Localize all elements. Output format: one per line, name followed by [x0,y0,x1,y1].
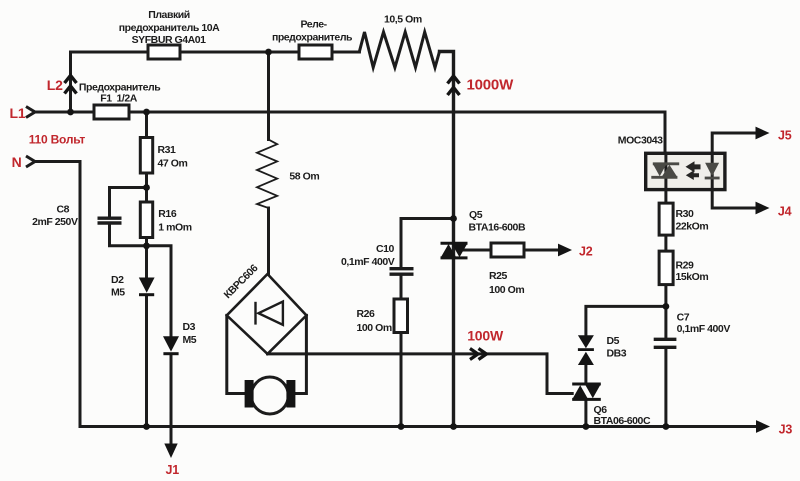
label C10 value [341,256,395,268]
svg-text:J2: J2 [579,245,593,259]
optocoupler light arrows [686,161,701,180]
svg-text:D2: D2 [111,274,124,286]
svg-text:10,5 Om: 10,5 Om [384,14,422,26]
junction dot L2/L1 [67,109,74,116]
wire optocoupler right pin J5/J4 [712,133,756,208]
label fuse10A line2 [119,22,220,34]
wire 58 Om branch upper [267,52,270,140]
wire L2 branch up to top fuse [71,52,149,112]
label bridge KBPC606 [222,262,261,301]
svg-text:L1: L1 [10,105,26,121]
svg-text:J1: J1 [166,463,180,477]
label D5 type DB3 [607,348,627,360]
label C7 value [677,323,731,335]
wire C8 loop [110,188,147,246]
svg-text:Q5: Q5 [469,209,483,221]
bridge rectifier KBPC606 diamond [227,274,307,354]
label resistor value 58 Om [289,171,319,183]
wire 58 Om to bridge top [267,208,270,274]
fuse "Реле-предохранитель" [299,45,332,59]
label D2 value M5 [111,287,125,299]
label terminal J5 [778,129,792,143]
svg-text:100 Om: 100 Om [357,322,392,334]
junction dot top wire / 58 Om [265,49,272,56]
label C10 [376,243,395,255]
label D5 [607,335,620,347]
svg-text:C7: C7 [677,312,690,324]
junction dot gate node R29/C7/D5 [663,303,670,310]
svg-text:DB3: DB3 [607,348,627,360]
junction dot rail/C7 [663,423,670,430]
label relay fuse line2 [272,32,353,44]
arrowhead J5 right [756,127,770,140]
label fuse10A value SYFBUR G4A01 [132,34,207,46]
svg-text:D5: D5 [607,335,620,347]
label R29 [676,260,695,272]
label D3 [183,321,196,333]
svg-text:MOC3043: MOC3043 [618,135,663,147]
fuse "Плавкий предохранитель 10А" [148,45,180,59]
svg-text:58 Om: 58 Om [289,171,319,183]
svg-text:Плавкий: Плавкий [148,9,190,21]
svg-text:C10: C10 [376,243,395,255]
junction dot rail/Q6 [583,423,590,430]
wire bridge right corner to motor [294,315,306,393]
arrow L2 up double chevron [65,76,77,94]
label D3 value M5 [183,334,197,346]
svg-text:M5: M5 [111,287,125,299]
wire optocoupler left pin chain [664,153,667,426]
label R25 value [489,284,524,296]
arrowhead J1 down [164,444,177,459]
label R25 [489,270,508,282]
wire L1 main rail [35,112,665,153]
svg-text:R16: R16 [158,208,177,220]
optocoupler right pin through body [711,155,714,188]
svg-text:2mF 250V: 2mF 250V [32,216,78,228]
svg-text:J4: J4 [778,205,792,219]
capacitor C10 [390,269,414,275]
label net 100W [467,328,504,344]
label resistor value 10,5 Om [384,14,422,26]
diode D2 [139,278,155,297]
resistor R16 [140,202,152,238]
wire Q5 gate to R25 and J2 [464,249,559,252]
fuse F1 [94,105,129,119]
svg-text:100 Om: 100 Om [489,284,524,296]
label net L1 [10,105,26,121]
optocoupler internal LED [705,163,720,180]
label Q6 [594,404,608,416]
svg-text:предохранитель: предохранитель [272,32,353,44]
optocoupler internal triac [651,164,679,178]
resistor 10,5 Om zigzag [359,32,439,68]
svg-text:L2: L2 [47,77,63,93]
label R29 value [676,271,709,283]
svg-text:D3: D3 [183,321,196,333]
wire bridge left corner to motor [227,315,246,393]
wire C10 branch [401,219,454,427]
svg-text:0,1mF 400V: 0,1mF 400V [341,256,395,268]
label R26 [357,308,376,320]
svg-text:110 Вольт: 110 Вольт [29,133,86,147]
svg-text:1 mOm: 1 mOm [158,222,191,234]
label R31 value [158,158,188,170]
svg-text:J3: J3 [779,423,793,437]
label R26 value [357,322,392,334]
svg-text:100W: 100W [467,328,504,344]
arrowhead J4 right [756,202,770,215]
motor brush left [245,380,254,408]
motor brush right [286,380,295,408]
label terminal J2 [579,245,593,259]
resistor R30 [659,203,673,235]
label terminal J1 [166,463,180,477]
resistor R31 [140,138,152,174]
optocoupler left pin through body [664,155,667,188]
triac Q5 [441,243,468,258]
arrow 100W right double chevron [470,349,487,360]
label C8 [56,204,69,216]
svg-text:N: N [12,154,22,170]
wire bottom rail to J3 [80,425,757,428]
wire relay fuse to resistor 10,5 Om [332,51,359,54]
svg-text:15kOm: 15kOm [676,271,709,283]
label fuse F1 line1 [79,82,161,94]
wire D3 / J1 branch [147,246,172,445]
svg-text:J5: J5 [778,129,792,143]
junction dot F1/R31 [143,109,150,116]
wire top fuse to relay fuse [180,51,299,54]
resistor R25 [491,243,524,257]
svg-text:R29: R29 [676,260,695,272]
label 110 Вольт [29,133,86,147]
junction dot rail/R26 [398,423,405,430]
svg-text:C8: C8 [56,204,69,216]
terminal chevron L1 [26,107,35,118]
wire 100W line from bridge to Q6 gate [268,354,573,394]
svg-text:47 Om: 47 Om [158,158,188,170]
junction dot rail/Q5 line [450,423,457,430]
junction dot R16/C8 bottom/D2 [143,242,150,249]
label MOC3043 [618,135,663,147]
resistor 58 Om zigzag [257,140,277,209]
capacitor C8 [98,218,122,223]
label R30 [676,208,695,220]
label Q5 [469,209,483,221]
svg-text:Реле-: Реле- [300,19,327,31]
resistor R26 [394,299,408,333]
label net 1000W [467,77,515,94]
svg-text:предохранитель 10А: предохранитель 10А [119,22,220,34]
label R16 value [158,222,191,234]
capacitor C7 [654,339,677,347]
label net N [12,154,22,170]
junction dot rail/D2 [143,423,150,430]
wire N entry and left drop [35,162,80,427]
svg-text:BTA06-600C: BTA06-600C [594,415,651,427]
triac Q6 [572,384,601,399]
label R31 [158,144,177,156]
svg-text:SYFBUR G4A01: SYFBUR G4A01 [132,34,207,46]
motor M armature circle [251,377,288,414]
label C7 [677,312,690,324]
label R30 value [676,221,709,233]
wire gate node to D5 and Q6 [586,306,666,426]
svg-text:BTA16-600B: BTA16-600B [469,222,526,234]
svg-text:22kOm: 22kOm [676,221,709,233]
label Q5 type BTA16-600B [469,222,526,234]
label net L2 [47,77,63,93]
arrowhead J3 right [756,420,770,433]
svg-text:F1 1/2A: F1 1/2A [100,93,138,105]
wire 1000W vertical (Q5 main line) [440,52,454,427]
svg-text:R25: R25 [489,270,508,282]
label terminal J4 [778,205,792,219]
svg-text:R31: R31 [158,144,177,156]
label Q6 type BTA06-600C [594,415,651,427]
arrowhead J2 right [558,244,572,257]
label relay fuse line1 [300,19,327,31]
arrow 1000W up double chevron [448,76,460,95]
svg-text:1000W: 1000W [467,77,515,94]
junction dot C10 node on Q5 line [450,215,457,222]
bridge internal diode symbol [256,302,283,325]
svg-text:0,1mF 400V: 0,1mF 400V [677,323,731,335]
diac D5 [578,335,594,365]
label D2 [111,274,124,286]
svg-text:R30: R30 [676,208,695,220]
terminal chevron N [26,156,35,167]
svg-text:R26: R26 [357,308,376,320]
label C8 value [32,216,78,228]
diode D3 [163,336,179,355]
resistor R29 [659,251,673,285]
label fuse10A line1 [148,9,190,21]
label R16 [158,208,177,220]
svg-text:M5: M5 [183,334,197,346]
label fuse F1 value [100,93,138,105]
wire R31 branch [145,112,148,427]
junction dot R31/R16/C8 top [143,184,150,191]
label terminal J3 [779,423,793,437]
optocoupler MOC3043 body [646,153,725,189]
